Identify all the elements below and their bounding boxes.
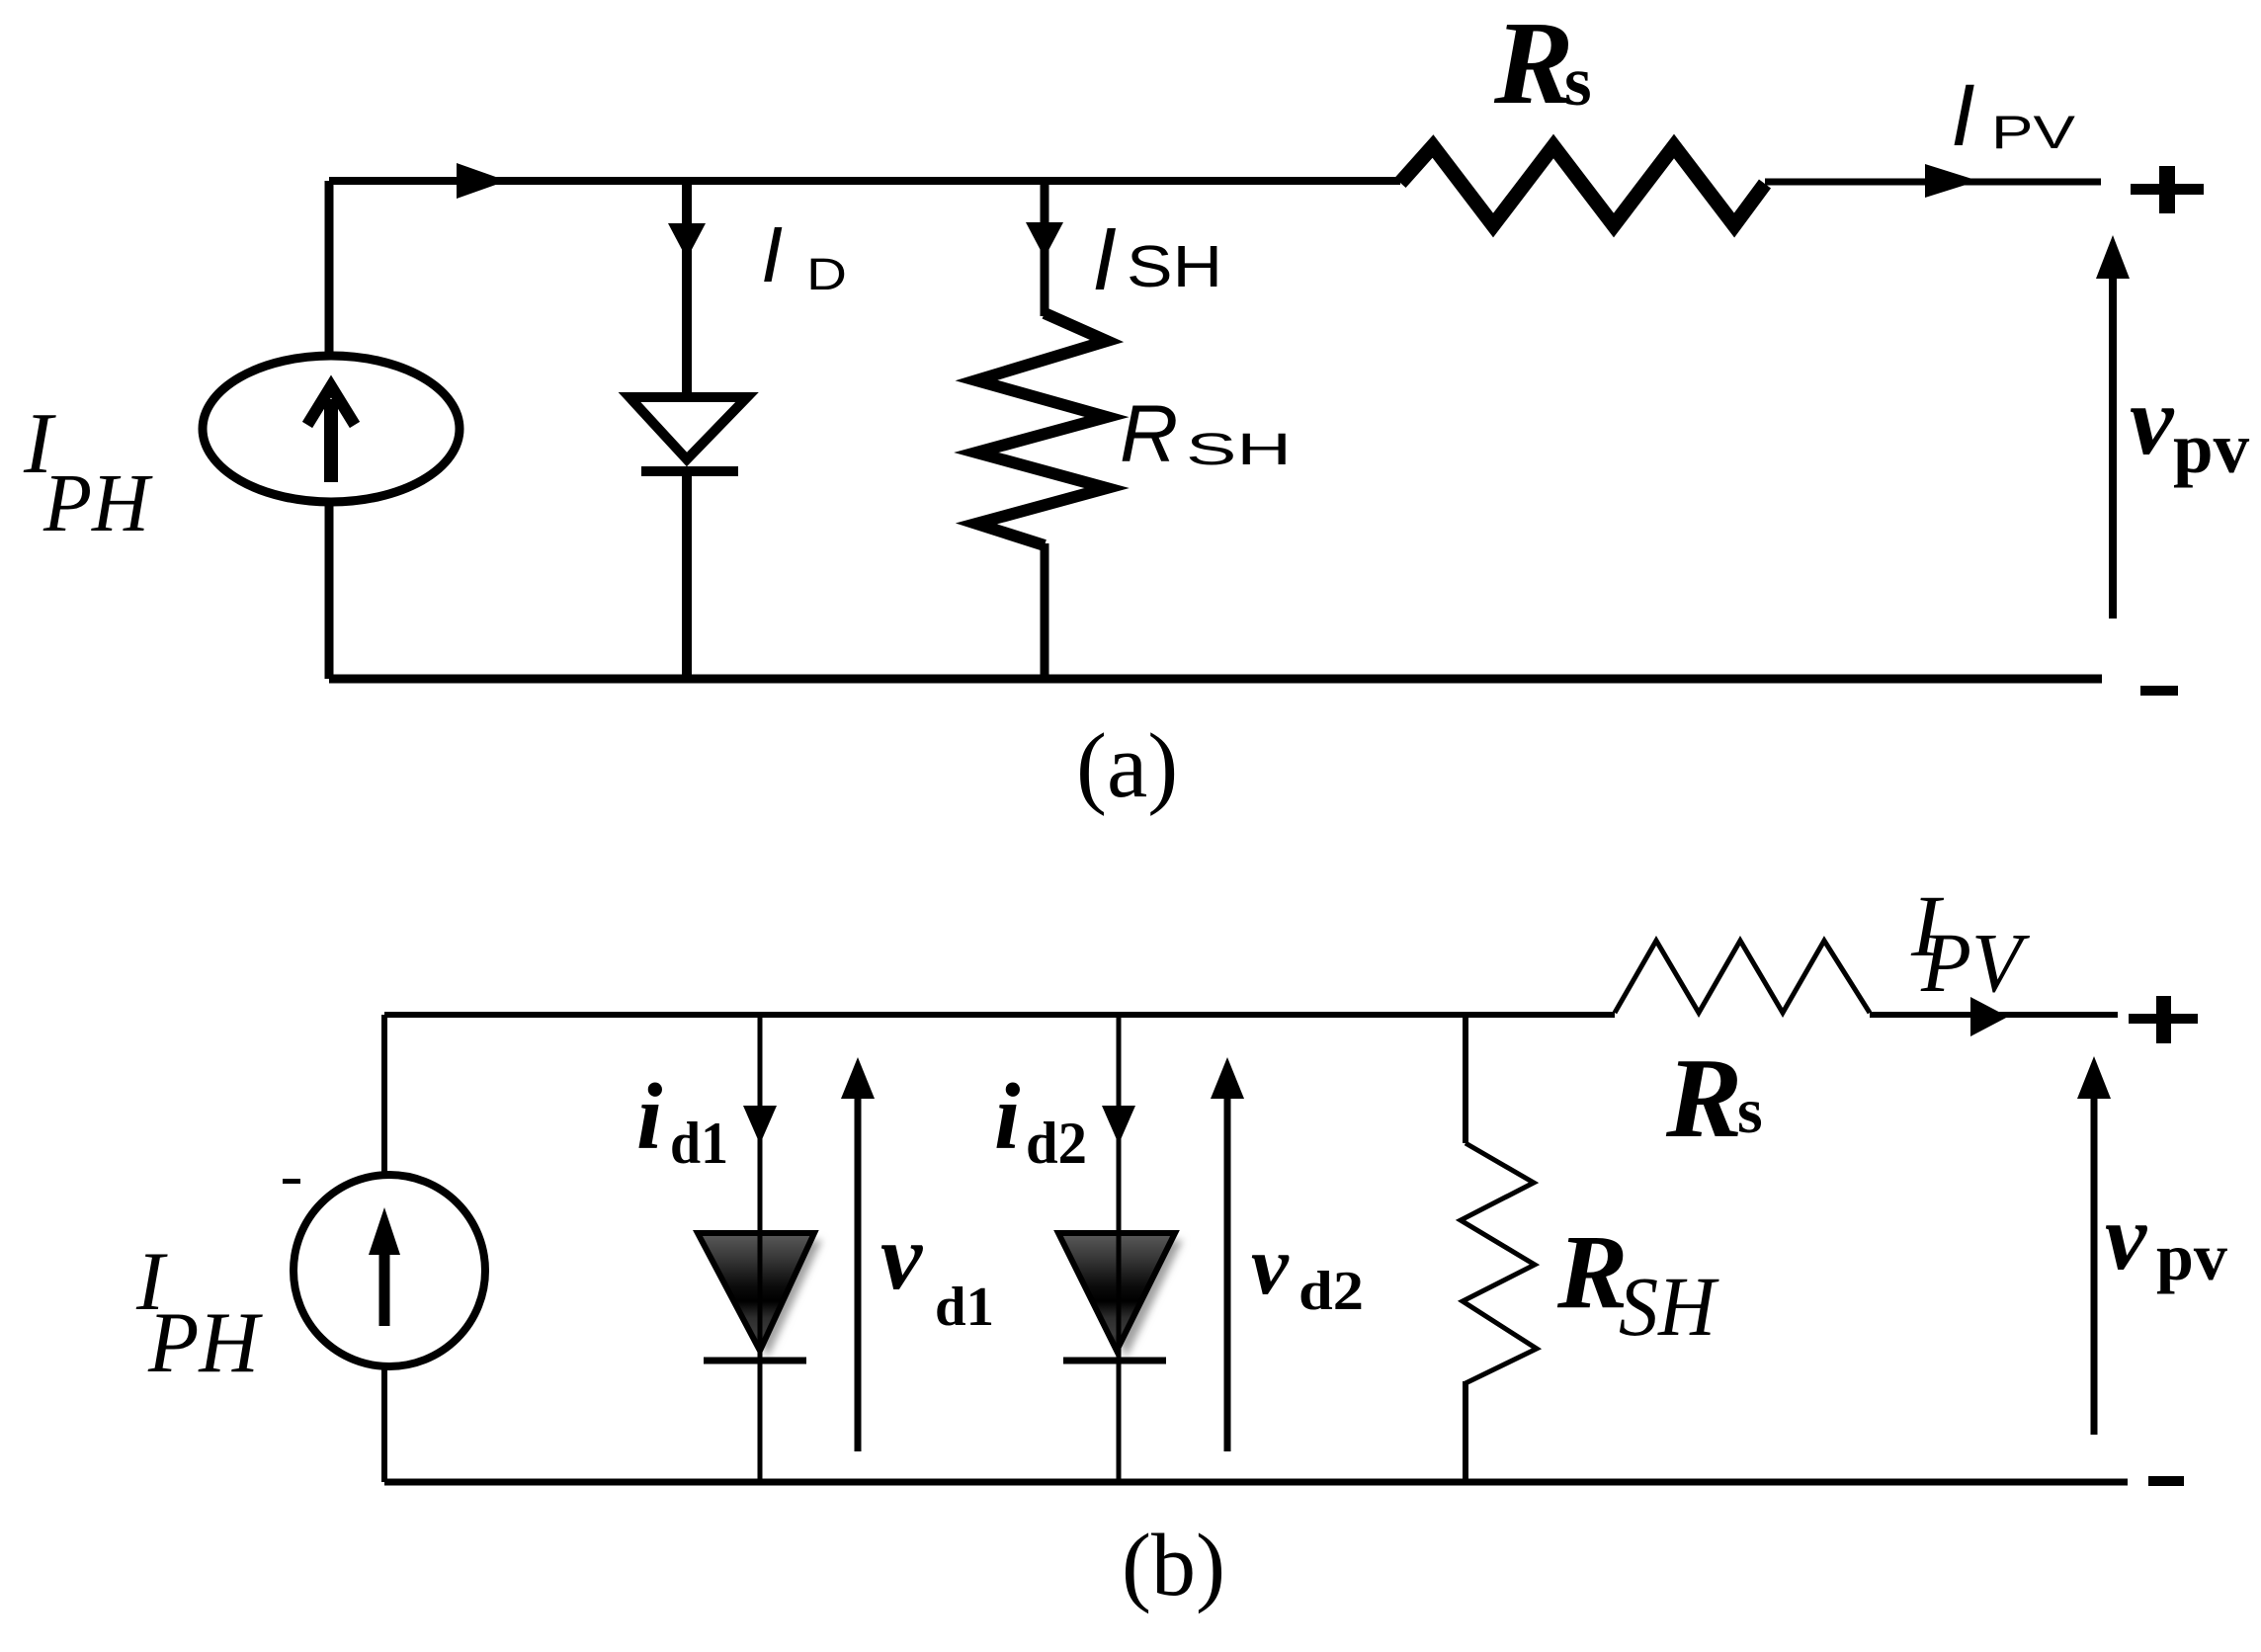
wire: (b) diode1 branch <box>758 1015 763 1482</box>
svg-text:SH: SH <box>1619 1259 1719 1354</box>
svg-text:R: R <box>1665 1035 1742 1162</box>
voltage arrow vd2 <box>1224 1093 1231 1451</box>
resistor RSH (a) <box>976 313 1107 545</box>
svg-text:R: R <box>1556 1214 1628 1331</box>
diode D2 (b) <box>1066 1240 1183 1358</box>
wire: (b) bottom wire <box>384 1479 2128 1486</box>
wire: (b) diode2 branch <box>1117 1015 1122 1482</box>
svg-text:(a): (a) <box>1076 715 1178 817</box>
wire: (b) left vertical lower <box>381 1363 387 1482</box>
wire: (b) top wire left segment <box>384 1012 1615 1018</box>
wire: (a) bottom wire <box>329 675 2102 684</box>
svg-text:PH: PH <box>147 1295 263 1391</box>
current arrow id1 <box>743 1106 777 1144</box>
svg-text:i: i <box>994 1064 1020 1169</box>
current direction arrow on (a) top wire <box>457 163 507 199</box>
svg-text:v: v <box>1251 1219 1290 1312</box>
svg-text:d2: d2 <box>1298 1261 1364 1322</box>
current direction arrow IPV (b) <box>1970 997 2008 1036</box>
current arrow id2 <box>1102 1106 1135 1144</box>
svg-text:v: v <box>880 1204 923 1309</box>
svg-text:D: D <box>806 249 847 299</box>
wire: (a) RSH branch upper <box>1041 181 1049 316</box>
svg-text:d2: d2 <box>1026 1111 1087 1176</box>
svg-text:PV: PV <box>1991 106 2076 158</box>
diode D (a) <box>629 397 747 459</box>
svg-text:SH: SH <box>1127 234 1222 299</box>
resistor Rs (a) <box>1400 146 1765 225</box>
wire: (a) top wire left segment <box>329 177 1400 185</box>
wire: (a) top wire right segment <box>1765 179 2101 186</box>
wire: (a) left vertical <box>325 181 334 679</box>
svg-text:pv: pv <box>2156 1219 2227 1294</box>
svg-text:d1: d1 <box>670 1111 728 1176</box>
svg-text:s: s <box>1737 1075 1763 1147</box>
wire: (b) RSH branch upper <box>1463 1015 1468 1143</box>
svg-text:pv: pv <box>2173 408 2250 488</box>
current source IPH (a) <box>203 356 460 502</box>
current arrow IPV (a) <box>1925 164 1978 198</box>
wire: (a) diode branch upper <box>682 181 692 399</box>
plus terminal (a) <box>2131 184 2204 195</box>
svg-text:PH: PH <box>42 457 153 549</box>
svg-text:R: R <box>1120 389 1178 479</box>
voltage arrow vpv (b) <box>2091 1095 2098 1435</box>
current source IPH (b) <box>293 1175 485 1366</box>
voltage arrow vpv (a) <box>2109 275 2117 619</box>
svg-text:I: I <box>761 210 783 298</box>
wire: (a) diode branch lower <box>682 471 692 679</box>
svg-text:(b): (b) <box>1122 1517 1225 1614</box>
svg-text:v: v <box>2130 366 2175 475</box>
svg-text:s: s <box>1564 43 1592 121</box>
stray minus mark near source (b) <box>283 1179 300 1184</box>
current arrow ISH <box>1026 222 1063 258</box>
minus terminal (b) <box>2148 1476 2184 1486</box>
svg-text:i: i <box>636 1064 662 1169</box>
svg-text:PV: PV <box>1920 915 2030 1010</box>
svg-text:I: I <box>1951 65 1975 164</box>
current arrow ID <box>668 223 706 259</box>
wire: (a) RSH branch lower <box>1041 543 1049 679</box>
plus terminal (b) <box>2129 1014 2198 1024</box>
svg-text:d1: d1 <box>935 1277 994 1338</box>
resistor Rs (b) <box>1615 941 1870 1013</box>
wire: (b) left vertical upper <box>381 1015 387 1181</box>
svg-text:I: I <box>1092 210 1117 309</box>
wire: (b) RSH branch lower <box>1463 1381 1468 1482</box>
svg-text:SH: SH <box>1186 424 1292 474</box>
voltage arrow vd1 <box>855 1093 862 1451</box>
svg-text:v: v <box>2105 1185 2147 1289</box>
minus terminal (a) <box>2140 686 2178 696</box>
svg-text:R: R <box>1493 0 1574 129</box>
resistor RSH (b) <box>1461 1143 1537 1383</box>
wire: (b) top wire right segment <box>1870 1012 2118 1018</box>
